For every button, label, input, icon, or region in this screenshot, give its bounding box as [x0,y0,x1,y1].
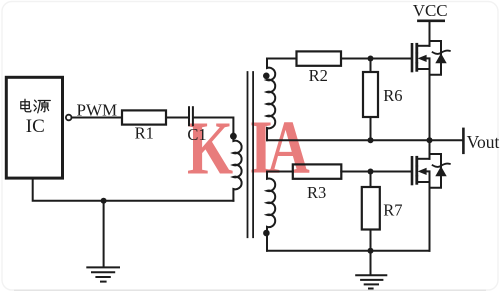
D1 cathode wavy bar [433,51,450,54]
svg-text:R7: R7 [383,200,402,219]
wire Q2 source to bottom rail [429,182,431,251]
svg-text:R6: R6 [383,86,402,105]
wire primary bottom rail to IC [33,179,234,201]
mosfet Q1 gate bar [411,44,414,71]
wire PWM pin to R1 [72,117,122,119]
wire VCC to Q1 drain [429,21,431,46]
watermark KIA [187,104,310,190]
Q2 body diode D2 [430,154,442,188]
wire bottom rail of bottom secondary [267,250,430,252]
svg-text:PWM: PWM [77,100,118,119]
svg-text:IC: IC [26,116,45,137]
transformer primary winding [233,133,241,201]
node C junction [368,169,374,175]
resistor R6 [363,72,378,117]
wire node C to R7 [370,172,372,188]
secondary winding bottom [267,172,275,251]
wire node A to R6 [370,59,372,73]
svg-text:C1: C1 [187,125,206,144]
resistor R3 [293,164,342,178]
wire bottom secondary to R3 [267,171,293,173]
Q1 drain connect [418,45,429,47]
junction on ground rail [101,198,107,204]
mosfet Q1 channel segments [415,44,418,70]
wire R6 to node B [370,117,372,140]
wire to Vout terminal [430,139,463,141]
label 电源 (power source) inside block [21,99,51,113]
svg-text:Vout: Vout [467,132,500,152]
wire top secondary to R2 [267,58,297,60]
node D junction [368,248,374,254]
ground symbol right [356,275,386,288]
capacitor C1 [189,107,193,125]
wire junction to ground [103,201,105,267]
wire R2 to node A [341,58,371,60]
Q2 body line to source [425,171,430,182]
phase dot top secondary [263,73,270,80]
wire R7 to node D [370,230,372,251]
mosfet Q2 gate bar [411,157,414,184]
Vout terminal bar [462,129,465,153]
wire Q1 source down to Vout node [429,69,431,140]
Q1 source connect [418,68,429,70]
wire bottom rail of top secondary [267,139,430,141]
svg-text:R2: R2 [309,66,328,85]
PWM output pin circle [66,115,72,121]
Q1 body arrow [418,55,427,62]
svg-text:VCC: VCC [413,1,448,20]
ground symbol left [87,267,119,281]
primary winding phase dot [230,133,237,140]
Q2 body arrow [418,168,427,175]
wire node A to Q1 gate [371,58,411,60]
Q2 source connect [418,181,429,183]
Q1 body diode D1 [430,41,442,75]
VCC supply bar [418,19,443,22]
resistor R2 [297,51,342,65]
junction at Q1 source / Vout node [427,137,433,143]
Q1 body line to source [425,58,430,69]
resistor R7 [362,187,380,230]
D2 cathode wavy bar [433,164,450,167]
node A junction [368,56,374,62]
power IC block U1 [6,77,62,178]
mosfet Q2 channel segments [415,157,418,183]
resistor R1 [122,110,166,124]
wire C1 to transformer primary [194,118,234,134]
Q2 drain connect [418,158,429,160]
secondary winding top [267,59,275,141]
wire Vout node to Q2 drain [429,140,431,159]
svg-text:R1: R1 [135,124,154,143]
phase dot bottom secondary [263,230,270,237]
transformer core [248,72,254,237]
wire node D to ground [370,251,372,275]
wire R1 to C1 [166,117,188,119]
svg-text:R3: R3 [307,183,326,202]
wire R3 to node C [341,171,370,173]
wire node C to Q2 gate [371,171,411,173]
node B junction [368,137,374,143]
